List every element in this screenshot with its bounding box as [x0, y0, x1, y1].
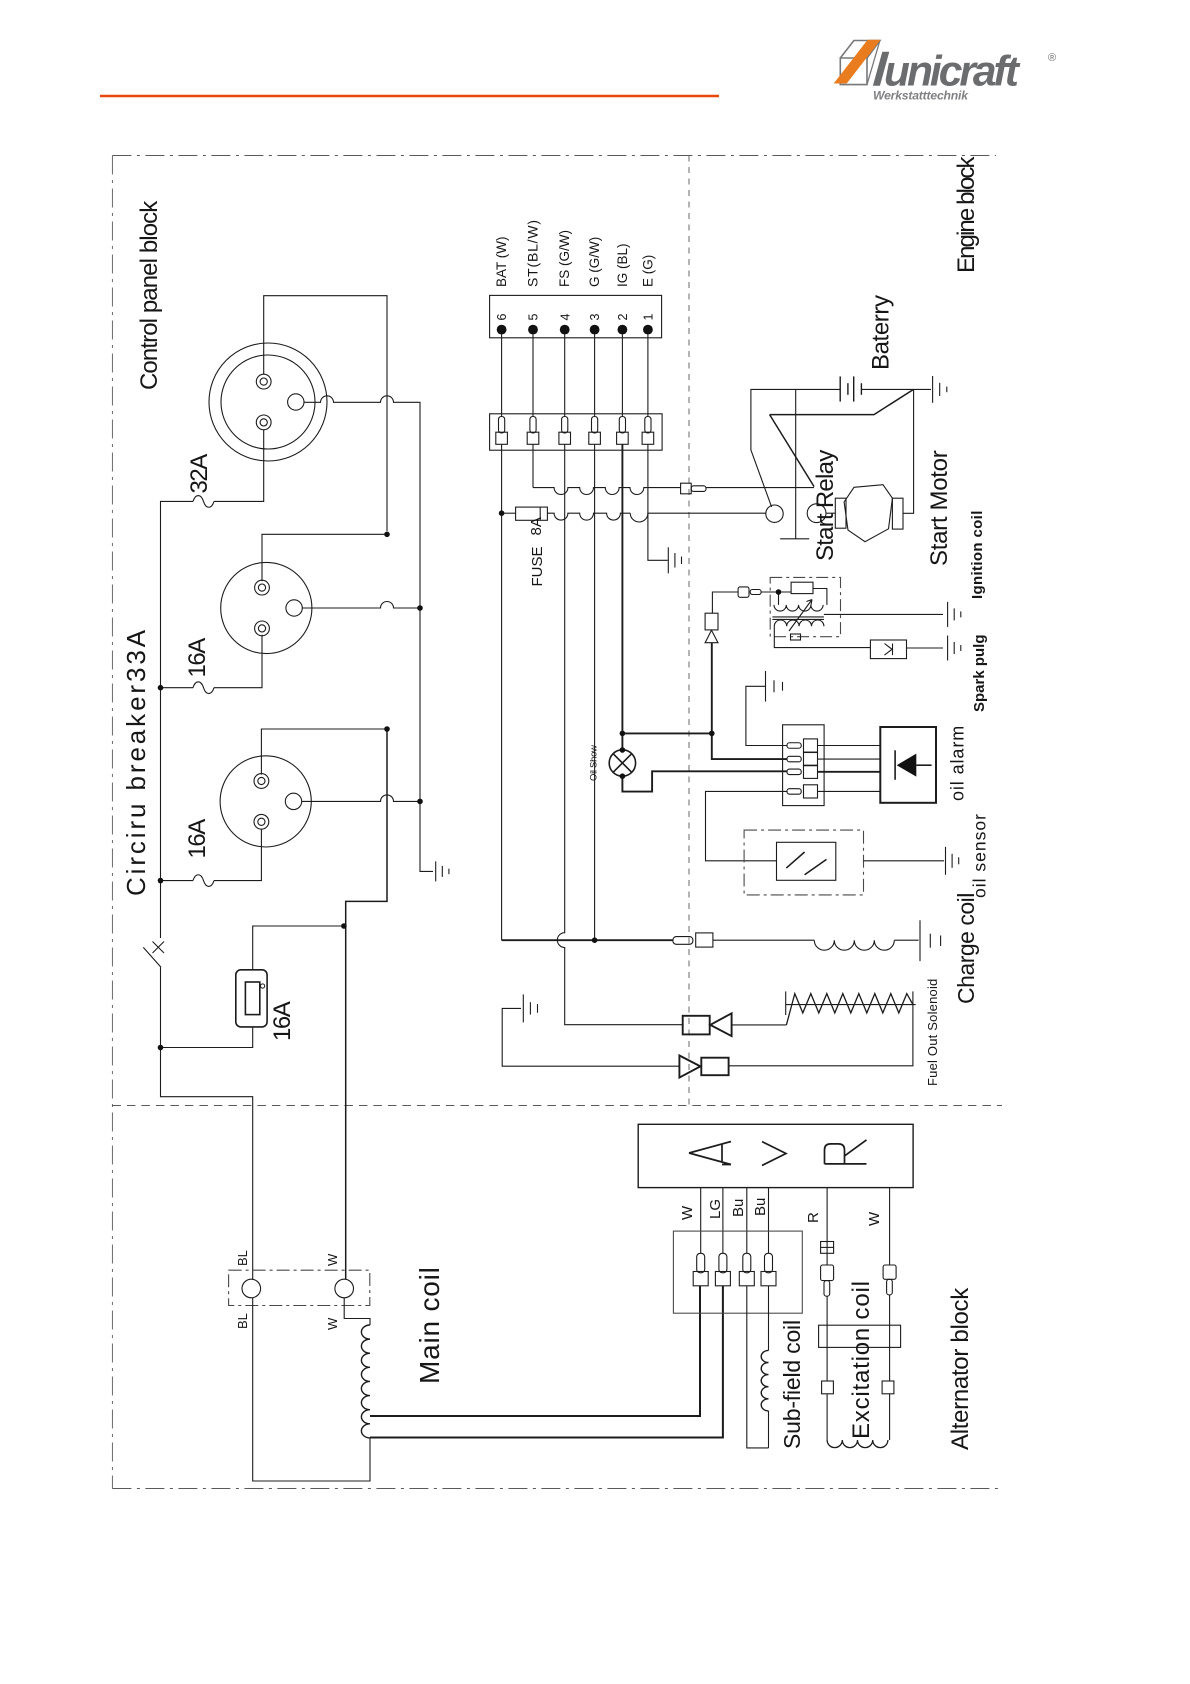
svg-text:oil sensor: oil sensor	[970, 813, 990, 898]
svg-text:W: W	[325, 1253, 340, 1266]
start relay contact 2	[807, 504, 826, 523]
solenoid coil zigzag	[785, 991, 787, 1015]
svg-text:32A: 32A	[186, 454, 213, 494]
wire IG pin2 down (thick)	[621, 444, 623, 750]
svg-text:Charge coil: Charge coil	[953, 893, 979, 1004]
W bullet connector	[883, 1265, 896, 1279]
diagram dash-dot outer border	[112, 156, 1002, 1489]
pin3 wire to sub-field coil	[747, 1286, 769, 1448]
junction big-pin bus b	[417, 799, 423, 805]
main coil bottom wire to pin LG	[370, 1286, 723, 1438]
oil alarm box	[880, 727, 936, 803]
svg-text:Werkstatttechnik: Werkstatttechnik	[873, 89, 969, 103]
socket 16A #2	[221, 562, 312, 653]
wire FS pin4 down with hop	[557, 444, 682, 1024]
wire socket3 bottom pin to bus	[214, 829, 261, 880]
wire W terminal to main coil top	[344, 1298, 370, 1325]
junction fuse16A-W	[341, 923, 347, 929]
svg-text:1: 1	[642, 314, 656, 321]
junction BAT-fuse8A	[499, 510, 505, 516]
svg-text:R: R	[805, 1212, 822, 1223]
terminal pin 4	[562, 417, 568, 433]
terminal pin 2	[619, 417, 625, 433]
terminal strip row	[490, 414, 662, 450]
junction IG branch	[620, 731, 626, 737]
svg-text:W: W	[325, 1317, 340, 1330]
svg-text:Ignition coil: Ignition coil	[969, 510, 986, 599]
svg-text:FUSE: FUSE	[529, 546, 546, 586]
excitation coil	[827, 1440, 888, 1448]
alt connector pin 2	[719, 1253, 727, 1273]
ground G6	[766, 671, 783, 702]
ignition coil box	[770, 577, 840, 636]
ground G2 (E pin)	[668, 547, 681, 573]
svg-text:Circiru breaker33A: Circiru breaker33A	[121, 627, 151, 896]
wire ignition to ground	[824, 613, 943, 615]
pin 6 dot	[497, 325, 507, 335]
svg-text:BAT (W): BAT (W)	[494, 237, 509, 288]
junction G-charge	[592, 937, 598, 943]
charge coil wire	[502, 939, 673, 941]
svg-text:G (G/W): G (G/W)	[587, 237, 602, 287]
junction ignition-IG	[709, 731, 715, 737]
connector bullet on ST wire	[681, 483, 692, 494]
wire pin 6 vertical	[501, 335, 503, 417]
svg-text:Sub-field coil: Sub-field coil	[779, 1320, 805, 1449]
alt connector pin 4	[765, 1253, 773, 1273]
svg-text:Oil Show: Oil Show	[589, 745, 600, 781]
alt connector pin 3	[743, 1253, 751, 1273]
svg-text:5: 5	[527, 314, 541, 321]
AVR wire x=746.8	[746, 1188, 748, 1254]
wire socket3 top pin to junction	[261, 729, 387, 775]
svg-text:3: 3	[588, 314, 602, 321]
4pin terminal 1	[787, 743, 801, 749]
svg-text:BL: BL	[235, 1313, 250, 1329]
junction bus 16A#3	[158, 878, 164, 884]
wire valve2 to ground	[502, 1008, 679, 1066]
wire socket1 top pin to top bus	[264, 296, 387, 531]
ground G5 (ignition)	[948, 602, 961, 627]
junction breaker out	[158, 1045, 164, 1051]
sub-field coil	[768, 1286, 770, 1351]
AVR wire x=722.9	[722, 1188, 724, 1254]
wire socket2 big pin right with hop	[302, 602, 420, 608]
wire BL terminal down to main coil loop	[253, 1298, 370, 1481]
connector block 6-pin	[490, 295, 662, 337]
svg-text:Alternator block: Alternator block	[947, 1287, 974, 1450]
svg-text:8A: 8A	[528, 517, 545, 535]
svg-text:Control panel block: Control panel block	[136, 200, 163, 390]
wire BAT pin6 down	[501, 444, 503, 940]
bottom terminal	[791, 634, 801, 640]
svg-text:Bu: Bu	[752, 1198, 769, 1216]
ground G8 (charge coil)	[920, 920, 941, 961]
fuse 8A	[502, 512, 516, 514]
junction bus 16A#2	[158, 685, 164, 691]
W wire from AVR	[889, 1188, 891, 1265]
battery	[840, 376, 861, 401]
connector bullet on charge wire	[673, 937, 693, 945]
svg-text:Start Relay: Start Relay	[812, 450, 839, 561]
main coil tap wire to pin W	[370, 1286, 700, 1416]
oil alarm diode	[894, 750, 896, 780]
AVR letter V	[762, 1142, 786, 1166]
svg-text:6: 6	[495, 314, 509, 321]
svg-text:FS (G/W): FS (G/W)	[557, 230, 572, 287]
R bullet connector	[821, 1265, 834, 1281]
spark plug	[870, 640, 906, 659]
connector 4-pin block	[783, 725, 825, 806]
start relay blade	[770, 415, 815, 487]
R wire from AVR	[826, 1188, 828, 1242]
terminal pin 5	[530, 417, 536, 433]
wire socket2 bottom pin to bus	[214, 635, 262, 688]
svg-text:Engine block: Engine block	[953, 155, 980, 273]
ground G1	[436, 861, 449, 881]
svg-text:W: W	[866, 1211, 883, 1226]
battery wires	[751, 389, 840, 507]
socket 16A #3	[220, 756, 311, 847]
wire pin4 to oil sensor	[706, 791, 788, 860]
wire socket1 big pin right with hops	[304, 396, 433, 872]
start relay contact 1	[766, 505, 783, 522]
svg-text:W: W	[679, 1205, 696, 1220]
circuit breaker switch	[153, 942, 165, 954]
header orange rule	[100, 95, 719, 98]
svg-text:IG (BL): IG (BL)	[615, 243, 630, 287]
diode-connector rect	[705, 613, 718, 630]
svg-text:Spark pulg: Spark pulg	[971, 634, 988, 712]
fuel valve 1	[683, 1016, 710, 1035]
svg-text:16A: 16A	[184, 819, 211, 859]
junction socket3 top	[384, 726, 390, 732]
wires 4pin to oil alarm	[818, 745, 881, 747]
wire E pin1 down to ground	[648, 444, 668, 560]
junction lamp bottom	[620, 773, 626, 779]
pin 5 dot	[528, 325, 538, 335]
wire socket3 big pin right with hop	[302, 795, 420, 802]
svg-text:16A: 16A	[184, 638, 211, 678]
IG branch to ignition connector	[622, 732, 711, 734]
pin 1 dot	[643, 325, 653, 335]
oil sensor box	[744, 830, 863, 895]
alternator connector box	[673, 1231, 802, 1313]
svg-text:E (G): E (G)	[641, 255, 656, 287]
triangle symbol	[705, 630, 718, 642]
4pin terminal 2	[787, 756, 801, 762]
fuse 16A branch	[161, 1027, 253, 1048]
start motor	[826, 512, 835, 514]
fuse 16A body	[236, 970, 267, 1027]
svg-text:Fuel Out Solenoid: Fuel Out Solenoid	[925, 979, 940, 1086]
junction lamp top	[620, 747, 626, 753]
ignition transformer windings	[774, 605, 823, 611]
wire pin 5 vertical	[532, 335, 534, 417]
junction socket1 bus	[384, 532, 390, 538]
ignition condenser	[791, 582, 813, 593]
AVR letter A	[689, 1140, 867, 1166]
AVR box	[638, 1124, 913, 1187]
svg-text:2: 2	[616, 314, 630, 321]
AVR wire x=768.5	[768, 1188, 770, 1254]
charge coil	[814, 940, 894, 950]
junction ignition condenser	[776, 589, 782, 595]
wire pin 3 vertical	[594, 335, 596, 417]
wire pin 2 vertical	[621, 335, 623, 417]
ground G6 wire	[746, 686, 787, 745]
socket 32A	[209, 343, 327, 461]
4pin terminal 3	[787, 769, 801, 775]
pin 3 dot	[590, 325, 600, 335]
fuel valve 2	[679, 1056, 700, 1078]
svg-text:16A: 16A	[269, 1001, 296, 1041]
ground G4 (spark plug)	[948, 636, 961, 661]
wire socket1 bottom pin to 32A breaker bus	[214, 430, 264, 502]
svg-text:Baterry: Baterry	[868, 295, 895, 370]
svg-text:LG: LG	[707, 1199, 724, 1219]
ground G9 (fuel)	[523, 994, 537, 1022]
wire ST pin5 down + wavy to relay	[532, 444, 534, 487]
pin 2 dot	[618, 325, 628, 335]
R inline connector 2	[822, 1381, 834, 1394]
svg-text:®: ®	[1048, 52, 1056, 64]
svg-text:4: 4	[558, 314, 572, 321]
junction big-pin bus a	[417, 605, 423, 611]
excitation box	[819, 1325, 901, 1347]
ground G7 (oil sensor)	[946, 847, 959, 875]
terminal block BL/W	[229, 1270, 370, 1305]
AVR letter R	[825, 1140, 867, 1164]
terminal pin 3	[592, 417, 598, 433]
unicraft logo	[840, 41, 880, 85]
vertical wire to W terminal	[346, 729, 387, 1279]
svg-text:oil alarm: oil alarm	[948, 725, 968, 801]
wire pin 1 vertical	[647, 335, 649, 417]
svg-text:Bu: Bu	[730, 1199, 747, 1217]
terminal BL	[242, 1279, 261, 1298]
dashed block separator vertical	[688, 156, 690, 1106]
W inline connector 2	[882, 1381, 894, 1394]
ignition secondary out	[774, 626, 870, 647]
svg-text:BL: BL	[235, 1250, 250, 1266]
terminal W	[335, 1279, 354, 1298]
terminal pin 1	[645, 417, 651, 433]
thick wire down to IG junction and pin2	[712, 643, 787, 759]
adjuster arrow	[789, 600, 812, 632]
wire G pin3 down	[594, 444, 596, 940]
wire socket2 top pin to junction	[262, 534, 387, 581]
main coil	[361, 1325, 370, 1438]
connector pair on ignition primary	[738, 587, 749, 597]
4pin terminal 4	[787, 789, 801, 795]
AVR wire x=700.7	[700, 1188, 702, 1254]
ground G3 (battery)	[933, 376, 947, 403]
Oil Show lamp	[609, 750, 635, 776]
svg-text:Main coil: Main coil	[414, 1266, 445, 1384]
fuse holder symbol	[821, 1242, 834, 1254]
dashed block separator horizontal	[112, 1105, 1002, 1107]
svg-text:Start Motor: Start Motor	[926, 450, 953, 566]
start relay frame	[780, 389, 809, 538]
alt connector pin 1	[697, 1253, 705, 1273]
svg-text:Excitation coil: Excitation coil	[848, 1280, 875, 1439]
terminal pin 6	[499, 417, 505, 433]
wire pin 4 vertical	[564, 335, 566, 417]
pin 4 dot	[560, 325, 570, 335]
svg-text:ST(BL/W): ST(BL/W)	[525, 219, 541, 287]
ignition primary wiring	[761, 591, 791, 593]
